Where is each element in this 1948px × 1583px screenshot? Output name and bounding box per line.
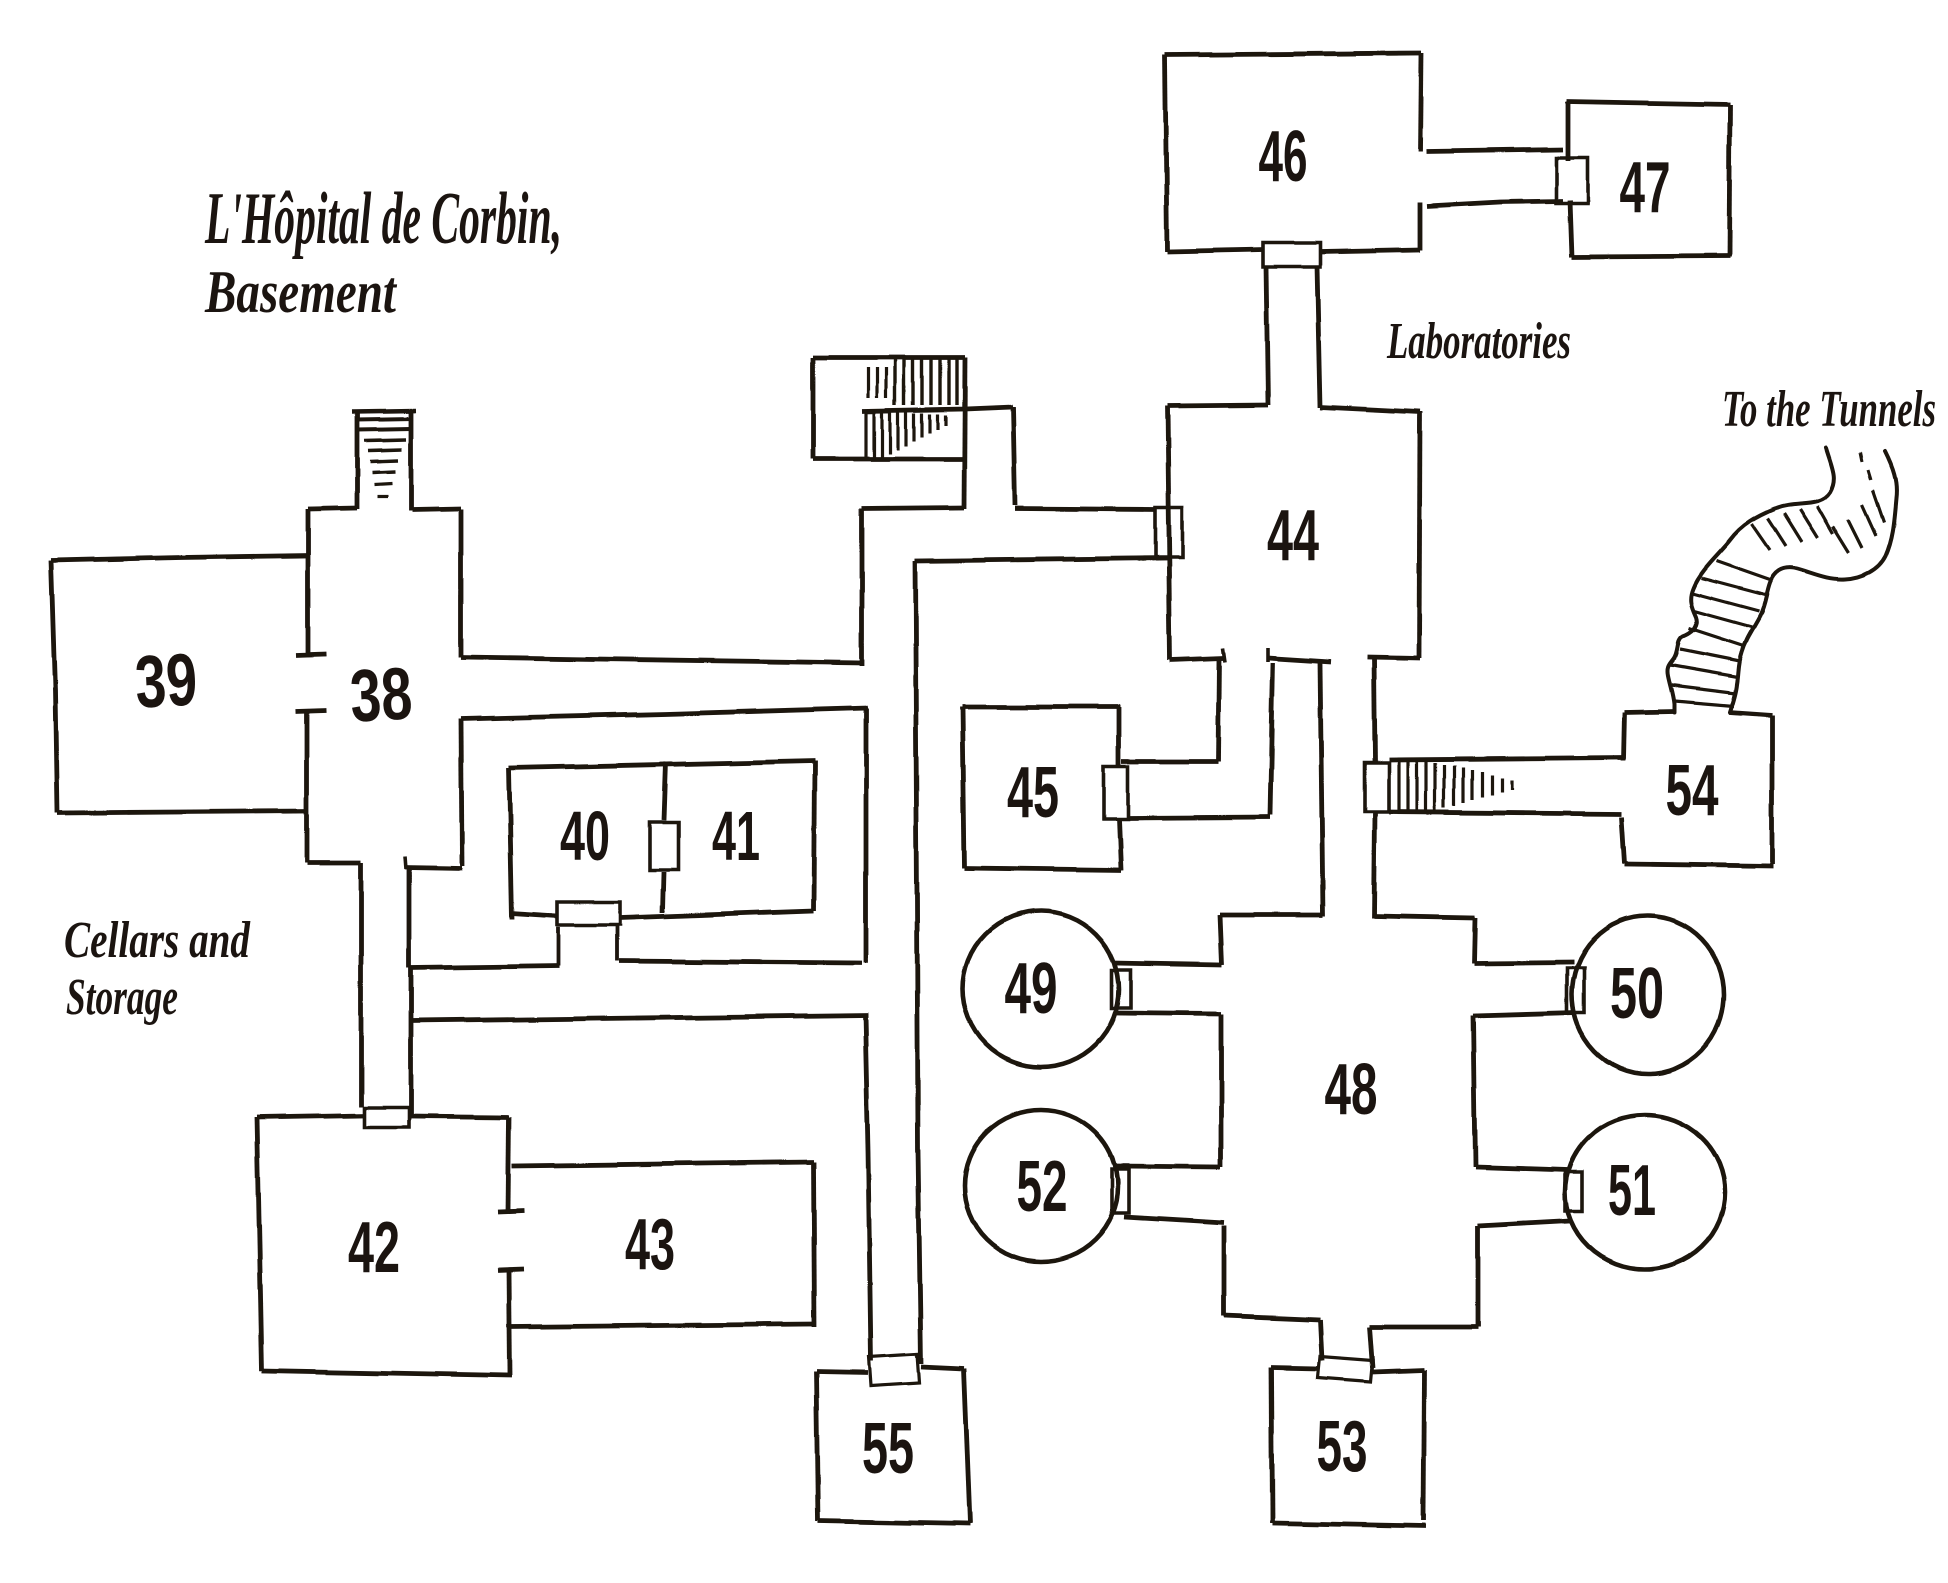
wall between 40 and 41	[664, 762, 666, 820]
tunnel to the tunnels (winding passage)	[1667, 448, 1833, 712]
door room 53	[1318, 1357, 1373, 1382]
door 40/41	[650, 822, 678, 870]
upper stair flight hatching	[866, 368, 869, 398]
east-west corridor below rooms 40/41	[411, 1015, 868, 1021]
circle room 52	[964, 1110, 1118, 1262]
room 45	[962, 705, 1121, 710]
room 38	[306, 509, 311, 656]
corridor room 44 down to room 45	[1218, 658, 1219, 762]
svg-text:47: 47	[1620, 148, 1671, 228]
stairs room (switchback stairs, top middle)	[813, 356, 965, 361]
room 43	[512, 1162, 813, 1166]
svg-text:Cellars and: Cellars and	[64, 912, 251, 969]
svg-text:38: 38	[348, 651, 414, 737]
room 55	[816, 1372, 868, 1373]
door to stair corridor	[1365, 763, 1389, 812]
circle room 50	[1572, 916, 1724, 1074]
svg-text:45: 45	[1007, 753, 1059, 833]
svg-text:53: 53	[1317, 1407, 1368, 1487]
room 39	[51, 555, 308, 560]
corridor room 48 down to room 53	[1320, 1320, 1322, 1361]
arm to circle 52	[1116, 1166, 1221, 1167]
door corridor to room 42	[364, 1107, 409, 1127]
circle room 49	[963, 911, 1119, 1067]
tunnel ribs	[1716, 561, 1770, 580]
svg-text:55: 55	[862, 1409, 914, 1489]
door circle 52	[1112, 1169, 1129, 1213]
svg-text:49: 49	[1005, 949, 1058, 1029]
svg-text:L'Hôpital de Corbin,: L'Hôpital de Corbin,	[204, 178, 562, 260]
svg-text:To the Tunnels: To the Tunnels	[1722, 381, 1936, 438]
arm to circle 50	[1474, 962, 1574, 963]
door room 46 south	[1263, 243, 1320, 267]
room 46	[1165, 53, 1422, 55]
corridor from stairs room: east branch to room 44	[862, 407, 1013, 411]
room 48 (cross shaped)	[1220, 913, 1323, 918]
corridor room 38 down to room 42	[359, 863, 364, 1106]
corridor room 44 down to room 48	[1320, 663, 1323, 916]
svg-text:52: 52	[1017, 1147, 1068, 1227]
room 44	[1167, 405, 1268, 406]
door room 40 south	[558, 902, 620, 925]
room 54	[1625, 711, 1674, 712]
svg-text:Basement: Basement	[204, 259, 398, 325]
stairs up from room 38 (chimney)	[355, 412, 360, 509]
door circle 51	[1565, 1172, 1582, 1211]
room 42	[257, 1115, 364, 1117]
corridor ring around rooms 40/41	[864, 708, 869, 963]
vestibule from room 40 door south	[557, 927, 561, 966]
svg-text:44: 44	[1267, 496, 1319, 576]
circle room 51	[1565, 1115, 1725, 1269]
stair hatching	[1397, 762, 1400, 812]
svg-text:46: 46	[1259, 117, 1308, 197]
svg-text:Storage: Storage	[66, 969, 178, 1026]
stair corridor to room 54 (hatched)	[1389, 758, 1622, 760]
rooms 40/41 block	[509, 761, 815, 768]
svg-text:39: 39	[133, 637, 199, 723]
south corridor (vertical, stairs to room 55)	[860, 509, 865, 666]
arm to circle 51	[1475, 1167, 1568, 1170]
svg-text:48: 48	[1325, 1050, 1378, 1130]
door room 47	[1556, 157, 1588, 203]
door room 45	[1104, 767, 1128, 819]
arm to circle 49	[1114, 963, 1222, 965]
pocket below stairs room	[862, 508, 964, 509]
corridor room 38 to east	[461, 657, 864, 663]
lower stair flight hatching	[864, 411, 867, 458]
svg-text:54: 54	[1666, 751, 1719, 831]
door circle 49	[1112, 970, 1131, 1008]
door circle 50	[1567, 968, 1584, 1013]
svg-text:50: 50	[1610, 954, 1664, 1034]
door room 55	[869, 1354, 919, 1386]
svg-text:40: 40	[560, 797, 610, 875]
svg-text:Laboratories: Laboratories	[1386, 313, 1571, 370]
corridor 46 to 47	[1427, 149, 1563, 151]
svg-text:41: 41	[712, 797, 760, 875]
room 53	[1271, 1368, 1320, 1369]
svg-text:42: 42	[348, 1208, 400, 1288]
corridor room 46 down to room 44	[1266, 266, 1268, 405]
door room 44 west	[1155, 507, 1182, 557]
svg-text:51: 51	[1608, 1151, 1656, 1231]
room 47	[1567, 102, 1730, 105]
svg-text:43: 43	[625, 1205, 675, 1285]
